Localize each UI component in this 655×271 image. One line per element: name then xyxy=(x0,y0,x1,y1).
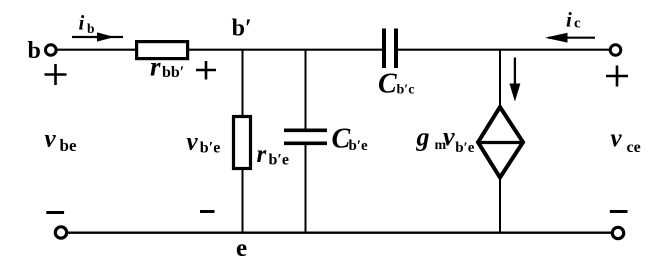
resistor R r_b'e xyxy=(234,117,251,169)
terminal e (bottom-right open circle) xyxy=(612,227,623,238)
svg-text:i: i xyxy=(566,7,572,31)
svg-text:v: v xyxy=(611,125,623,152)
plus sign of v_b'e (at node b') xyxy=(196,61,216,80)
wire b to resistor r_bb' xyxy=(57,49,136,51)
minus sign of v_be xyxy=(46,211,64,214)
plus sign of v_be xyxy=(45,64,67,85)
minus sign of v_b'e xyxy=(200,210,215,213)
svg-text:r: r xyxy=(150,51,161,81)
svg-text:b: b xyxy=(28,38,41,64)
svg-text:bb′: bb′ xyxy=(162,64,184,81)
svg-text:v: v xyxy=(45,126,57,153)
minus sign of v_ce xyxy=(610,210,628,213)
terminal c (top-right open circle) xyxy=(610,45,621,56)
wire C_b'c to terminal c xyxy=(398,49,610,51)
svg-text:b′e: b′e xyxy=(269,151,290,168)
svg-text:b′e: b′e xyxy=(349,138,369,154)
svg-text:ce: ce xyxy=(627,139,641,156)
wire r_b'e to bottom rail xyxy=(242,168,244,233)
current arrow i_b xyxy=(72,32,123,41)
bottom rail wire xyxy=(68,231,611,233)
wire r_bb' to capacitor C_b'c (through node b') xyxy=(189,49,383,51)
wire b' rail down to capacitor C_b'e xyxy=(305,50,307,129)
svg-text:r: r xyxy=(257,141,267,168)
svg-text:g: g xyxy=(416,123,430,152)
svg-text:v: v xyxy=(443,122,455,151)
current arrow i_c (pointing left) xyxy=(545,33,595,43)
wire C_b'e to bottom rail xyxy=(305,145,307,234)
svg-text:i: i xyxy=(79,10,85,34)
wire b' node down to resistor r_b'e xyxy=(242,50,244,116)
capacitor C_b'e xyxy=(284,130,327,143)
resistor R r_bb' xyxy=(137,42,188,59)
terminal b (top-left open circle) xyxy=(46,45,57,56)
capacitor C_b'c xyxy=(384,29,396,69)
svg-text:e: e xyxy=(236,235,247,262)
current direction arrow (downwards, beside source) xyxy=(509,58,520,102)
svg-text:C: C xyxy=(378,69,397,100)
plus sign of v_ce xyxy=(606,66,628,87)
dependent current source G1 g_m v_b'e (diamond) xyxy=(478,107,524,178)
terminal e- (bottom-left open circle) xyxy=(55,227,66,238)
svg-text:c: c xyxy=(574,15,581,31)
svg-text:b′c: b′c xyxy=(397,82,415,97)
wire current source to bottom rail xyxy=(499,177,501,233)
svg-text:b: b xyxy=(87,21,95,36)
svg-text:v: v xyxy=(187,128,199,155)
svg-text:be: be xyxy=(60,136,77,155)
svg-text:b′: b′ xyxy=(232,15,252,41)
wire top rail down to current source xyxy=(499,50,501,106)
svg-text:b′e: b′e xyxy=(455,140,475,156)
svg-text:b′e: b′e xyxy=(200,140,221,157)
